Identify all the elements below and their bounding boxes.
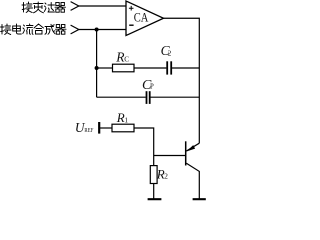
- wire: left rail to Rc: [97, 67, 113, 69]
- svg-text:REF: REF: [84, 127, 93, 134]
- 合: [34, 24, 44, 34]
- 器: [56, 25, 67, 35]
- transistor Q1 (PNP) base bar: [185, 141, 187, 165]
- ground under R2: [148, 198, 162, 200]
- 接: [22, 2, 33, 13]
- 接: [1, 24, 12, 35]
- 电: [13, 24, 22, 34]
- label R1: [116, 110, 129, 125]
- 法: [44, 3, 54, 13]
- label Rc: [115, 49, 129, 64]
- wire: terminal to R1: [99, 127, 112, 129]
- label C2: [161, 43, 172, 58]
- capacitor Cf: [147, 91, 150, 104]
- wire: arrow1 to op-amp + input: [79, 5, 126, 7]
- 流: [23, 24, 33, 34]
- junction node at Rc row: [95, 66, 99, 70]
- wire: base lead: [154, 155, 185, 157]
- input terminal arrow 2 (chevron): [71, 25, 79, 34]
- op-amp + input sign: [129, 6, 134, 11]
- svg-text:2: 2: [164, 172, 168, 181]
- resistor R1: [112, 124, 134, 132]
- resistor Rc: [113, 64, 135, 72]
- input terminal arrow 1 (chevron): [71, 2, 79, 11]
- 乘: [34, 2, 44, 13]
- wire: arrow2 to op-amp - input: [79, 29, 126, 31]
- wire: R2 to ground: [153, 184, 155, 199]
- wire: R1 to node, down to R2: [134, 128, 154, 166]
- ground under transistor: [193, 198, 206, 200]
- svg-text:CA: CA: [134, 11, 149, 25]
- label Uref: [75, 120, 94, 135]
- junction node on inverting input wire: [95, 28, 99, 32]
- label Cf: [142, 78, 154, 93]
- wire: op-amp output to right rail: [164, 18, 200, 143]
- label R2: [156, 166, 168, 181]
- label text 接乘法器 (to multiplier): [22, 2, 66, 13]
- wire: left feedback rail: [96, 30, 98, 98]
- resistor R2: [150, 166, 157, 184]
- svg-text:C: C: [124, 55, 129, 64]
- 成: [45, 24, 55, 34]
- terminal bar for Uref: [98, 122, 100, 134]
- 器: [55, 3, 66, 13]
- wire: C2 to right rail: [172, 67, 199, 69]
- wire: Rc to C2: [134, 67, 166, 69]
- transistor collector lead: [186, 163, 199, 198]
- wire: Cf to right rail: [151, 96, 200, 98]
- transistor emitter arrowhead: [186, 145, 195, 151]
- svg-text:1: 1: [124, 115, 128, 124]
- label text 接电流合成器 (to current combiner): [1, 24, 67, 35]
- capacitor C2: [167, 61, 171, 74]
- transistor emitter lead with arrow: [186, 143, 199, 151]
- svg-text:2: 2: [168, 49, 172, 58]
- op-amp - input sign: [129, 24, 133, 26]
- op-amp CA: [126, 1, 164, 36]
- wire: left rail corner to Cf: [97, 96, 146, 98]
- svg-text:P: P: [150, 83, 154, 90]
